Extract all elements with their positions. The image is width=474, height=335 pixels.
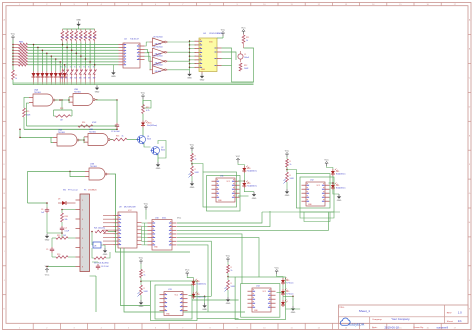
resistor R22 NTC — [94, 257, 109, 265]
svg-text:GND: GND — [187, 78, 192, 80]
switches S1-S8 — [61, 67, 97, 85]
IC U11 counter — [212, 176, 240, 203]
svg-text:GND: GND — [156, 168, 161, 170]
wire pull-up top rail — [63, 26, 95, 29]
NAND gate U5A — [29, 94, 58, 106]
capacitor C5 — [46, 247, 54, 253]
resistor R1 — [12, 70, 18, 80]
wire bottom bus — [90, 232, 246, 313]
EasyEDA logo — [340, 318, 364, 327]
svg-text:VCC: VCC — [177, 218, 182, 220]
wire bias to block D — [141, 280, 151, 282]
svg-text:PT?-circuit: PT?-circuit — [68, 189, 78, 192]
ground block A LEDs — [252, 192, 257, 200]
wire R18-C4 — [61, 222, 63, 226]
wire loop block D inner — [155, 285, 192, 319]
junction dots switch columns — [62, 44, 96, 66]
IC U10 — [148, 220, 177, 251]
wire loop block D outer — [151, 281, 198, 321]
svg-text:NTC 10k B=3950: NTC 10k B=3950 — [94, 263, 109, 265]
wire VCC rail vertical — [12, 40, 14, 70]
wire inverter outputs to U4 — [167, 40, 196, 72]
NAND gate U7A — [85, 168, 110, 180]
svg-text:GND: GND — [139, 306, 144, 308]
wire R17 to LED1 — [142, 114, 144, 121]
svg-text:S: S — [70, 67, 71, 69]
capacitor C2 — [111, 123, 121, 133]
label U7A — [90, 163, 98, 169]
ground block E LEDs — [283, 296, 296, 315]
date / drawn by — [372, 325, 448, 329]
title block grid — [339, 305, 469, 329]
svg-text:R19: R19 — [57, 235, 60, 237]
svg-text:R12: R12 — [244, 65, 247, 67]
svg-text:TITLE:: TITLE: — [339, 307, 345, 309]
IC U9 — [114, 212, 142, 248]
svg-text:R18: R18 — [65, 216, 68, 218]
resistor R14 — [78, 122, 97, 127]
power label VCC right — [177, 218, 182, 220]
svg-text:S: S — [74, 67, 75, 69]
ground (pull-up common) — [76, 20, 81, 27]
wire pin8 VCC — [46, 266, 75, 268]
resistor R19 — [52, 235, 76, 239]
wire left loop vertical — [27, 171, 29, 203]
wire U7A output down — [110, 174, 116, 232]
svg-text:D9: D9 — [58, 199, 60, 201]
svg-text:GND: GND — [201, 69, 206, 71]
svg-text:GND: GND — [200, 80, 205, 82]
svg-text:VCC: VCC — [45, 266, 50, 268]
bias chain block E — [225, 255, 236, 305]
svg-text:C3: C3 — [41, 209, 43, 211]
svg-text:R17: R17 — [146, 107, 149, 109]
svg-text:DS18B20: DS18B20 — [88, 190, 97, 192]
resistor R12 — [239, 63, 249, 71]
wire bias to block E — [228, 276, 235, 278]
wire loop block B outer — [300, 177, 334, 212]
svg-text:S: S — [79, 67, 80, 69]
svg-text:S: S — [88, 67, 89, 69]
svg-text:GND: GND — [226, 303, 231, 305]
svg-text:1k: 1k — [231, 270, 233, 272]
wire Q2 collector loop — [158, 141, 166, 163]
NAND gate U6A — [53, 134, 82, 146]
transistor Q2 NPN — [151, 147, 166, 156]
label U2 74LS147 — [124, 39, 140, 41]
svg-text:Red(633nm): Red(633nm) — [247, 186, 257, 188]
wire red bundle into U9 — [103, 216, 114, 245]
svg-text:1k: 1k — [15, 78, 17, 80]
bias chain block B — [284, 150, 295, 197]
svg-text:U3 74LS04: U3 74LS04 — [153, 64, 162, 66]
svg-text:MC74HC589: MC74HC589 — [124, 207, 136, 209]
label U5B — [74, 89, 82, 94]
wire fan-out U10 to counters — [177, 211, 329, 312]
svg-text:REV:: REV: — [447, 312, 452, 314]
LED LED1 red — [141, 120, 157, 127]
wire U6A out to U6B — [79, 137, 85, 143]
svg-text:S: S — [61, 67, 62, 69]
svg-text:10k: 10k — [61, 37, 64, 39]
svg-text:VCC: VCC — [285, 150, 290, 152]
diode D9 — [58, 199, 76, 206]
svg-text:VCC: VCC — [226, 255, 231, 257]
svg-text:74LS04: 74LS04 — [155, 71, 162, 73]
LEDs block B — [324, 159, 345, 190]
svg-text:10k: 10k — [70, 37, 73, 39]
resistors R2-R10 pull-up array — [61, 29, 96, 43]
svg-text:GND: GND — [202, 309, 207, 311]
wire U14 to LEDs — [277, 292, 284, 294]
wire loop block A inner — [203, 172, 237, 207]
svg-text:10k: 10k — [84, 37, 87, 39]
svg-text:Company:: Company: — [372, 319, 382, 321]
label U9 — [119, 207, 136, 213]
title Sheet_1 — [339, 307, 371, 313]
sheet 1/1 — [447, 319, 462, 323]
wire U13 to LEDs — [189, 295, 195, 297]
wire NTC loop — [92, 248, 110, 258]
svg-text:100uF: 100uF — [244, 57, 250, 59]
svg-text:VCC: VCC — [139, 257, 144, 259]
resistor R16 — [113, 136, 127, 141]
svg-text:GND: GND — [285, 195, 290, 197]
svg-text:VCC: VCC — [275, 267, 280, 269]
ground block D LEDs — [194, 296, 208, 312]
svg-text:R20: R20 — [57, 254, 60, 256]
wire into U7A — [28, 171, 86, 177]
label U10 — [155, 218, 167, 220]
wire C3 down — [46, 213, 48, 233]
capacitor C1 electrolytic — [238, 51, 250, 62]
wire left loop into sensor — [28, 202, 76, 204]
svg-text:Your Company: Your Company — [391, 317, 410, 321]
svg-text:S: S — [93, 67, 94, 69]
power flag VCC sensor — [45, 266, 50, 277]
svg-text:1/1: 1/1 — [458, 319, 462, 323]
svg-text:GND: GND — [337, 200, 342, 202]
svg-text:GND: GND — [291, 312, 296, 314]
svg-text:R1: R1 — [15, 75, 17, 77]
wire into U6A — [19, 129, 53, 143]
svg-text:R14: R14 — [82, 122, 85, 124]
resistor R18 — [61, 213, 68, 222]
svg-text:GND: GND — [190, 187, 195, 189]
svg-text:GND: GND — [76, 20, 81, 22]
svg-text:S: S — [65, 67, 66, 69]
wire Q1 emitter to Q2 base — [144, 143, 151, 147]
svg-text:U3 74LS04: U3 74LS04 — [153, 56, 162, 58]
svg-text:470R: 470R — [92, 122, 97, 124]
svg-text:R16: R16 — [116, 136, 119, 138]
bias chain block D — [138, 257, 149, 308]
svg-text:10k: 10k — [93, 37, 96, 39]
wire loop block B inner — [296, 174, 330, 208]
svg-text:C2 0.01uF: C2 0.01uF — [111, 131, 121, 133]
svg-text:U8: U8 — [94, 246, 96, 248]
svg-text:R15: R15 — [26, 111, 29, 113]
capacitor C3 — [41, 202, 49, 214]
svg-text:10k: 10k — [75, 37, 78, 39]
ground block B LEDs — [337, 194, 342, 202]
ground driver — [156, 162, 161, 170]
svg-text:C1: C1 — [244, 54, 246, 56]
power flag VCC driver — [141, 92, 146, 104]
svg-text:1k: 1k — [122, 136, 124, 138]
svg-text:VCC: VCC — [185, 269, 190, 271]
svg-text:9013: 9013 — [147, 139, 151, 141]
wire loop block A outer — [207, 176, 241, 212]
svg-text:VCC: VCC — [236, 156, 241, 158]
wire pin2 — [61, 209, 75, 213]
resistor R15 — [23, 108, 31, 117]
wire block B feedback down — [300, 212, 334, 222]
svg-text:10k: 10k — [65, 37, 68, 39]
LEDs block A — [236, 156, 257, 188]
power flag VCC (left rail) — [11, 33, 16, 40]
IC U4 display driver (yellow) — [195, 38, 222, 72]
capacitor C4 — [60, 226, 70, 233]
wire oscillator output net — [24, 129, 118, 131]
svg-text:100R: 100R — [26, 115, 31, 117]
ground U4 — [200, 72, 205, 82]
svg-text:U3 74LS04: U3 74LS04 — [153, 47, 162, 49]
svg-text:J: J — [469, 280, 470, 282]
resistor R20 — [52, 253, 76, 258]
resistor R13 — [54, 108, 73, 122]
wire RC node — [27, 103, 118, 129]
wire R16 to Q1 base — [127, 139, 139, 141]
svg-text:VCC: VCC — [45, 275, 50, 277]
svg-text:VCC: VCC — [241, 27, 246, 29]
svg-text:1k: 1k — [246, 40, 248, 42]
svg-text:VCC: VCC — [324, 159, 329, 161]
svg-text:S: S — [84, 67, 85, 69]
resistor R11 + VCC — [241, 27, 249, 48]
bias chain block A (R23,R24,VCC,GND) — [189, 144, 200, 189]
wire C4 node — [47, 232, 63, 238]
svg-text:Date:: Date: — [372, 326, 378, 329]
wire bias to block B — [287, 170, 296, 174]
wire block E right tail — [286, 308, 301, 310]
diode row D1-D8 — [32, 71, 67, 85]
transistor Q1 NPN — [137, 136, 152, 145]
svg-text:VCC: VCC — [190, 144, 195, 146]
wire U5B output — [96, 99, 118, 123]
wire loop block E outer — [235, 277, 285, 320]
svg-text:Red(633nm): Red(633nm) — [197, 284, 207, 286]
svg-text:R11: R11 — [246, 37, 249, 39]
wire block D to E links — [192, 296, 239, 318]
svg-text:U3 74LS04: U3 74LS04 — [153, 37, 162, 39]
wire switch column verticals — [63, 43, 95, 69]
svg-text:R21 10k(1%): R21 10k(1%) — [94, 228, 105, 230]
svg-text:1k: 1k — [195, 159, 197, 161]
svg-text:10k: 10k — [79, 37, 82, 39]
LEDs block D — [185, 269, 206, 299]
svg-text:200R: 200R — [244, 68, 249, 70]
svg-text:GND: GND — [45, 240, 50, 242]
power flag VCC U4 — [217, 29, 226, 38]
wire LED1 to Q1 — [142, 128, 144, 136]
junction dots staircase — [33, 44, 66, 66]
resistor R21 — [90, 228, 117, 233]
ground U2 — [111, 65, 116, 78]
svg-text:GND: GND — [111, 76, 116, 78]
svg-text:EasyEDA: EasyEDA — [349, 323, 365, 327]
label U6A — [58, 129, 66, 135]
wire U11 to LEDs — [238, 180, 249, 196]
wire U5A out to U5B in — [55, 97, 70, 103]
labels sensor block — [63, 189, 97, 192]
svg-text:Sheet_1: Sheet_1 — [359, 309, 371, 313]
wire R1 to ground net — [12, 80, 14, 85]
svg-text:VCC: VCC — [141, 92, 146, 94]
IC U2 priority encoder — [119, 43, 145, 68]
svg-text:GND: GND — [103, 254, 108, 256]
rev 1.0 — [447, 311, 462, 315]
wire R15 connections — [24, 97, 29, 129]
power flag VCC U9/U10 — [144, 203, 149, 219]
svg-text:4.7k: 4.7k — [146, 110, 149, 112]
labels 10k pull-up array — [61, 33, 96, 39]
svg-text:Drawn By:: Drawn By: — [414, 326, 424, 329]
wire bias to block A — [192, 164, 203, 173]
svg-text:Red(633nm): Red(633nm) — [247, 171, 257, 173]
wire U12 to LEDs — [329, 182, 334, 184]
svg-text:Red(633nm): Red(633nm) — [336, 174, 346, 176]
svg-text:VCC: VCC — [144, 203, 149, 205]
svg-text:GND: GND — [95, 91, 100, 93]
svg-text:1.0: 1.0 — [458, 311, 462, 315]
ground U8 — [101, 245, 108, 256]
wire loop at R17 — [143, 101, 151, 109]
svg-text:J: J — [4, 280, 5, 282]
wire LED2 to ground B — [333, 190, 339, 194]
svg-text:VCC: VCC — [221, 29, 226, 31]
wire block B bottom link — [262, 211, 340, 213]
svg-text:Ye?Green: Ye?Green — [286, 293, 294, 296]
wire U6B output — [111, 139, 114, 141]
label U6B — [89, 129, 97, 134]
svg-text:1k: 1k — [144, 275, 146, 277]
svg-text:C5: C5 — [46, 249, 48, 251]
connector P1 (gray) — [76, 194, 90, 272]
ground junction column — [187, 72, 192, 80]
ground (key matrix) — [95, 85, 100, 93]
svg-text:VCC: VCC — [11, 33, 16, 35]
LEDs block E — [275, 267, 294, 296]
resistor R17 — [142, 105, 150, 114]
wire LED2 to ground A — [244, 188, 254, 192]
IC U13 counter — [160, 289, 188, 316]
IC U14 counter — [248, 286, 276, 313]
svg-text:Sheet:: Sheet: — [447, 320, 454, 323]
wire encoder outputs to inverters — [145, 42, 151, 70]
svg-text:8050: 8050 — [161, 150, 165, 152]
wire staircase verticals (diode column) — [34, 45, 65, 72]
svg-text:Ye?Green: Ye?Green — [286, 282, 294, 285]
wire U9-U10 links — [142, 223, 148, 245]
svg-text:Red(633nm): Red(633nm) — [336, 188, 346, 190]
svg-text:10k: 10k — [65, 219, 68, 221]
label U4 — [203, 33, 223, 35]
ground sensor left — [45, 234, 50, 242]
wire right RC loop — [222, 48, 254, 82]
junction dots on VCC rail — [12, 44, 14, 66]
resistor network RN1 — [13, 42, 28, 67]
wire loop block E inner — [241, 284, 280, 318]
svg-text:GND: GND — [252, 198, 257, 200]
wire bus 8 lines to encoder — [28, 45, 119, 65]
svg-text:C4: C4 — [65, 228, 67, 230]
svg-text:summerII: summerII — [437, 325, 449, 329]
svg-text:C6 2.2uF: C6 2.2uF — [101, 266, 110, 268]
svg-text:2019-06-18: 2019-06-18 — [385, 325, 400, 329]
svg-text:Red(633nm): Red(633nm) — [147, 125, 157, 127]
svg-text:RN1: RN1 — [19, 42, 24, 44]
svg-text:1k: 1k — [290, 164, 292, 166]
company — [372, 317, 410, 321]
svg-text:10k: 10k — [88, 37, 91, 39]
svg-text:74LS147: 74LS147 — [130, 39, 140, 41]
component U8 (blue box) — [91, 231, 101, 248]
wire feedback loop R13 — [54, 100, 73, 116]
svg-text:103: 103 — [63, 235, 66, 237]
LED third block E — [281, 296, 288, 307]
svg-text:R13: R13 — [60, 108, 63, 110]
wire to C5 — [51, 238, 53, 247]
wire long ground net horizontal — [13, 84, 254, 85]
svg-text:74LS04: 74LS04 — [155, 43, 162, 45]
NAND gate U5B — [69, 94, 98, 106]
label U5A — [34, 89, 42, 95]
inverters U3A-U3D 74LS04 — [150, 37, 169, 74]
capacitor C6 — [92, 262, 110, 270]
NAND gate U6B — [84, 134, 113, 146]
IC U12 counter — [302, 180, 330, 207]
